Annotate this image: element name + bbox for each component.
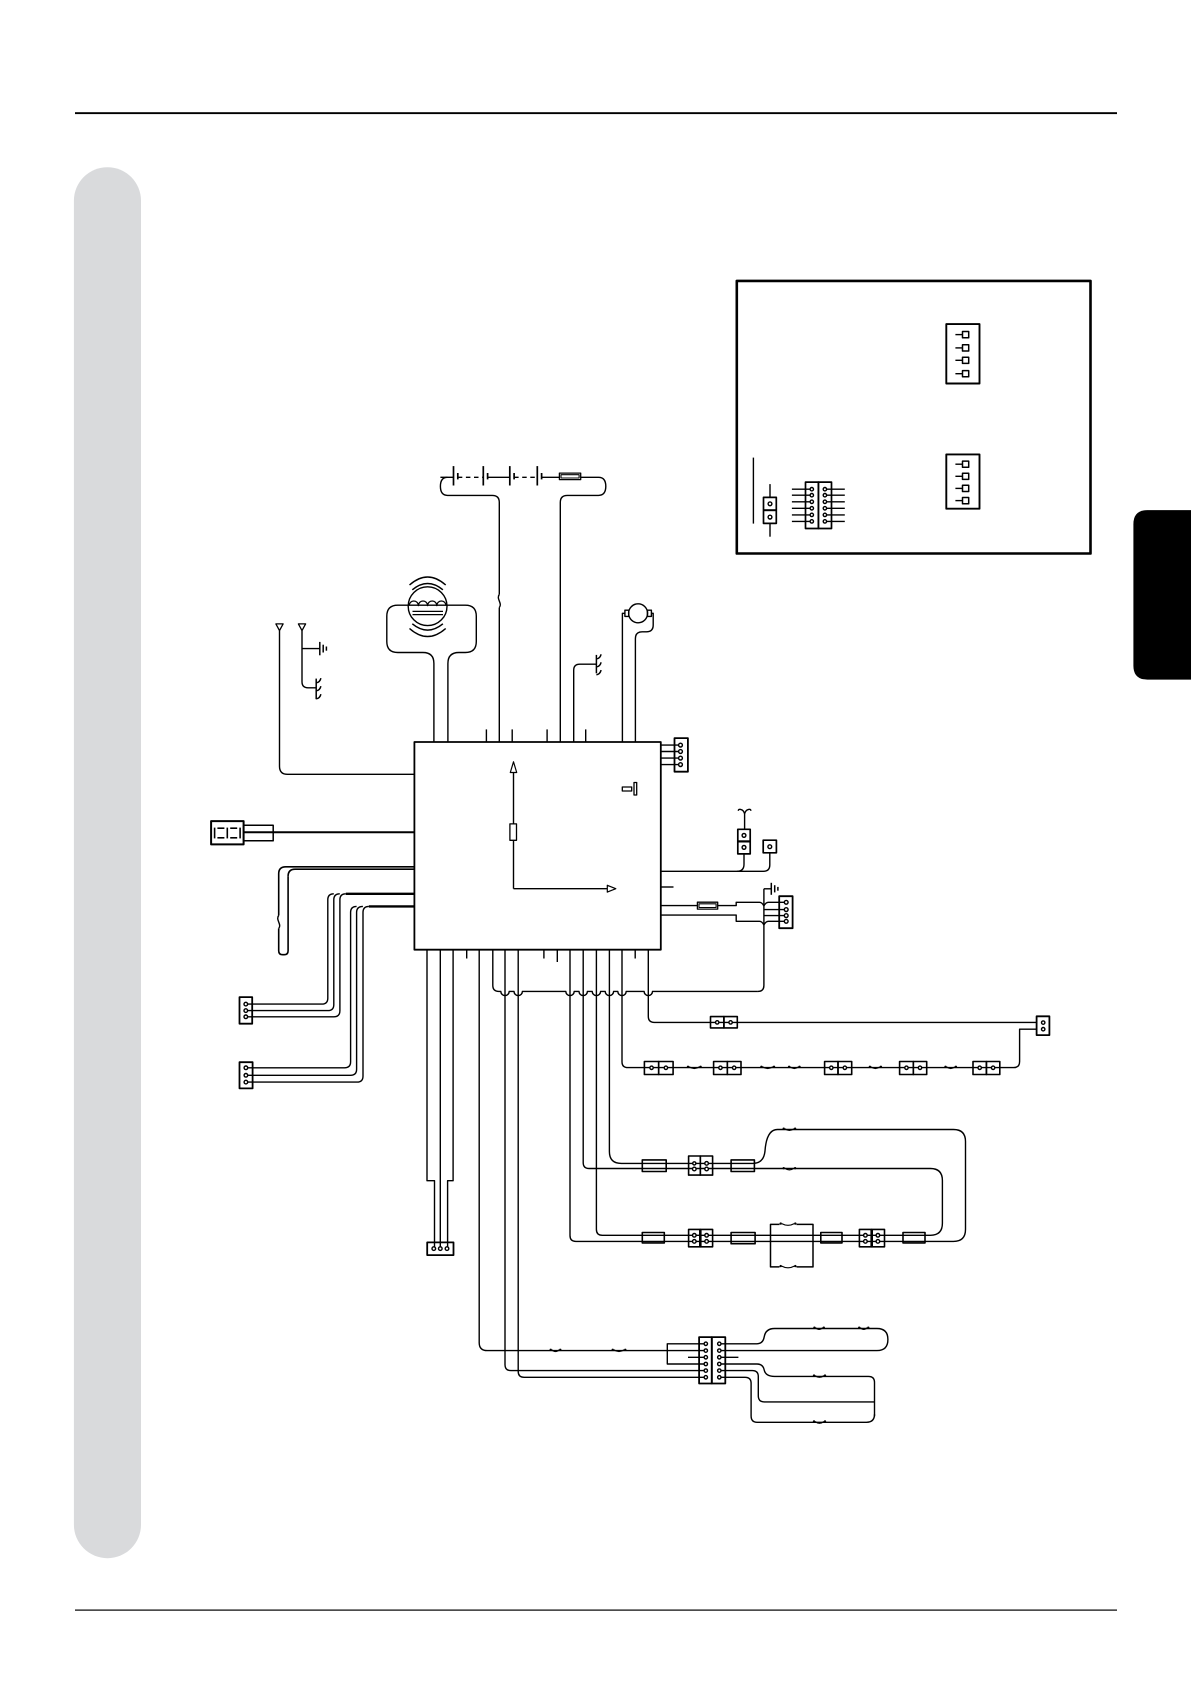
splice (row2 wire a) <box>550 1349 552 1351</box>
wire (far right connector to bottom row) <box>1000 1029 1037 1067</box>
connector pair (upper group 2x2) <box>689 1156 701 1175</box>
fuse F2 <box>697 902 717 909</box>
connector pair (lower group right 2x2) <box>859 1229 871 1246</box>
splice (headlamp loop b) <box>858 1327 860 1329</box>
wire (horn left lead) <box>622 613 625 742</box>
wire bundle (unit to connector CN2) <box>369 905 415 907</box>
connector (4-pin, right mid) <box>779 896 792 928</box>
wire (ground riser tap to pin 2) <box>764 909 786 911</box>
wire (unit to connector pin 4, hops ground riser) <box>661 915 786 925</box>
CDI unit detail box <box>737 281 1091 554</box>
splice (loop 4-5) <box>813 1374 815 1376</box>
connector CN2 (3-pin) <box>240 1062 253 1088</box>
pin stubs on top edge <box>485 729 487 742</box>
connector C (3-pin horizontal) <box>427 1242 453 1255</box>
pin stub on right edge <box>661 886 674 888</box>
fuse F6 (lower group) <box>731 1233 755 1244</box>
wire loop to switch (upper lead) <box>279 867 415 916</box>
display plug <box>244 825 274 841</box>
battery chain links (solid and dashed) <box>440 476 453 478</box>
connector pair (inline, y1022) <box>711 1017 724 1028</box>
switch box (lower group, splice marks on edges) <box>771 1224 814 1267</box>
splice (switch box top) <box>780 1222 782 1224</box>
inline connector mark on switch lead <box>278 916 280 929</box>
fuse F8 (lower group) <box>903 1233 925 1243</box>
connector (2-cell, in detail box) <box>769 484 771 497</box>
wire loop (right pins 4-5) <box>719 1364 874 1416</box>
wire (display to unit) <box>244 831 415 833</box>
inline connector mark on battery lead <box>498 595 500 608</box>
main control unit (ECU) box <box>414 742 660 950</box>
wire loop (right pin 6, tail lamp) <box>719 1377 874 1422</box>
wire (right pin 5 riser) <box>719 1371 874 1402</box>
magneto upper arcs <box>410 577 446 585</box>
wire (to frame ground) <box>574 664 597 742</box>
fuse F5 (lower group) <box>642 1233 664 1243</box>
wire (flasher to unit) <box>737 854 744 871</box>
fuse F7 (lower group) <box>821 1233 842 1243</box>
splice (bottom row a) <box>687 1066 689 1068</box>
wire (unit to connector C pin 2) <box>439 950 441 1249</box>
wire (branch to earth symbol) <box>302 648 320 650</box>
pin stubs on bottom edge <box>466 950 468 959</box>
connector CN-A (4-pin, in detail box) <box>946 324 979 383</box>
splice (row2 wire b) <box>612 1349 614 1351</box>
wire run: unit / second lamp loop / lower return (leg x583-x596) <box>583 950 942 1236</box>
earth ground symbol (right) <box>764 888 771 890</box>
ground riser wire (bus to earth) <box>758 889 764 992</box>
pin circles (12-pin connector) <box>704 1342 707 1345</box>
splice (bottom row b) <box>760 1066 762 1068</box>
frame ground symbol (left) <box>315 679 317 700</box>
splice (second loop) <box>783 1167 785 1169</box>
flywheel magneto (generator) <box>408 587 447 626</box>
connector pair (lower group left 2x2) <box>689 1229 701 1246</box>
wire (horn right lead) <box>635 613 653 742</box>
splice (bottom row e) <box>944 1066 946 1068</box>
wire (fuse F2 to connector pin 1, hops ground riser) <box>718 902 787 906</box>
splice (headlamp loop a) <box>813 1327 815 1329</box>
wire (unit to bottom connector row, y1067) <box>622 950 1000 1068</box>
bottom rule <box>75 1610 1117 1611</box>
wire (battery right leg to main unit) <box>560 477 606 742</box>
splice (tail loop) <box>813 1420 815 1422</box>
jumper loop (left pins 1-4) <box>667 1344 706 1364</box>
top rule <box>75 112 1117 114</box>
connector (12-pin, in detail box) <box>806 482 819 528</box>
switch loop bottom <box>279 876 288 954</box>
fuse F4 (upper group right) <box>731 1160 754 1172</box>
wire loop to switch (lower lead) <box>288 869 414 876</box>
wire bundle (unit to connector CN1) <box>346 893 415 895</box>
axis arrow (vertical) inside unit <box>513 773 515 889</box>
wire (unit to harness connector row 6) <box>518 950 706 1378</box>
fuse F1 (main, on battery chain) <box>559 473 580 480</box>
connector CN1 (3-pin) <box>240 997 253 1024</box>
connector pairs P1-P5 (bottom row) <box>644 1062 658 1075</box>
splice (upper loop) <box>783 1128 785 1130</box>
wire loop (right pins 1-2, headlamp) <box>719 1329 888 1351</box>
wire terminal triangle T1 <box>276 624 283 631</box>
horn H1 <box>629 604 648 623</box>
resistor (on vertical axis) <box>510 824 517 840</box>
wire run: unit / upper lamp loop / lower return (left leg x570) <box>570 950 966 1242</box>
connector (2-cell, flasher) <box>738 829 750 854</box>
connector (single cell) <box>763 840 776 853</box>
wire (unit to tail connector row, y1022) <box>648 950 1036 1023</box>
black side tab <box>1133 510 1191 679</box>
ground bus wire (unit bottom, hops over crossings) <box>493 950 758 996</box>
connector (4-pin, top right of unit) <box>675 738 688 772</box>
splice (bottom row c) <box>788 1066 790 1068</box>
splice (switch box bottom) <box>780 1265 782 1267</box>
left gray sidebar <box>74 167 141 1558</box>
splice (bottom row d) <box>869 1066 871 1068</box>
wire (terminal T1 to main unit) <box>280 631 415 775</box>
connector (2-pin vertical, far right) <box>1037 1016 1050 1035</box>
harness connector (12-pin, bottom) <box>699 1337 712 1383</box>
wire loop to flywheel magneto <box>387 605 477 742</box>
wire (terminal T2 to grounds) <box>302 631 316 688</box>
frame ground symbol (center) <box>595 655 597 673</box>
speed display unit <box>211 821 244 844</box>
battery cells B1-B4 <box>453 466 455 485</box>
battery chain wire loop <box>440 477 499 594</box>
wire (unit to harness connector row 5) <box>505 950 706 1371</box>
flasher relay symbol (curled Y) <box>738 809 751 829</box>
wire terminal triangle T2 <box>298 624 305 631</box>
wire (unit to connector C pin 3) <box>448 950 454 1249</box>
axis arrow (horizontal) inside unit <box>514 888 608 890</box>
wire (unit to connector C pin 1) <box>427 950 435 1249</box>
stub wires (row 3) <box>688 1356 706 1358</box>
wire (unit to fuse F2) <box>661 905 698 907</box>
wire (battery left leg to main unit) <box>498 608 500 743</box>
fuse F3 (upper group left) <box>642 1160 666 1172</box>
connector CN-B (4-pin, in detail box) <box>946 454 979 508</box>
magneto lower arcs <box>410 629 446 637</box>
earth ground symbol (3 bars) <box>319 642 321 655</box>
wire (ground riser tap to pin 3) <box>764 915 786 917</box>
wire (detail box, lone lead) <box>752 458 754 524</box>
trimmer symbol inside unit <box>622 787 631 791</box>
wire (unit to harness connector row 2) <box>479 950 706 1351</box>
